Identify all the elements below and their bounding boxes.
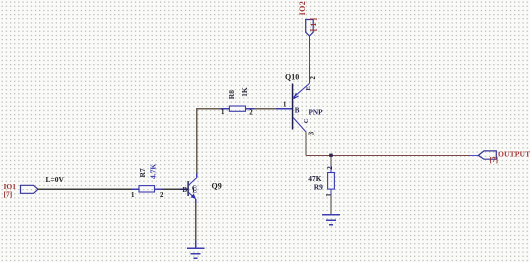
wire horizontal net corner to R8	[196, 108, 220, 110]
svg-text:R8: R8	[227, 90, 236, 99]
transistor Q10 emitter lead	[293, 84, 309, 98]
port IO1	[21, 185, 39, 193]
wire OUTPUT port stub	[470, 154, 478, 156]
wire ground pin stub	[195, 241, 197, 248]
resistor R9	[328, 173, 335, 190]
wire R8 pin2 stub	[246, 108, 255, 110]
svg-text:Q9: Q9	[212, 181, 222, 190]
transistor Q10 base bar	[292, 84, 294, 130]
svg-text:[1]: [1]	[309, 16, 318, 31]
wire IO1 to R7	[38, 188, 132, 190]
wire R8 pin1 stub	[220, 108, 229, 110]
wire output net horizontal	[306, 154, 470, 156]
port IO2	[306, 20, 314, 36]
transistor Q10 emitter arrow	[294, 93, 299, 98]
svg-text:1: 1	[131, 192, 135, 199]
transistor Q9 emitter lead	[188, 192, 195, 199]
transistor Q10 collector lead	[293, 118, 306, 132]
wire Q9 base pin	[180, 188, 187, 190]
svg-text:[7]: [7]	[4, 190, 13, 199]
svg-text:E: E	[192, 187, 197, 195]
wire R7 pin1 stub	[132, 188, 139, 190]
svg-text:1: 1	[325, 193, 333, 197]
wire Q9 emitter down	[195, 199, 197, 203]
svg-text:1: 1	[283, 101, 287, 108]
svg-text:B: B	[182, 186, 187, 194]
svg-text:1: 1	[221, 109, 225, 116]
wire Q10 emitter pin up	[308, 66, 310, 84]
junction output net / R9	[329, 154, 332, 157]
svg-text:L=0V: L=0V	[46, 175, 65, 184]
transistor Q9 collector lead	[188, 178, 196, 186]
svg-text:2: 2	[310, 76, 317, 80]
resistor R8	[229, 106, 245, 111]
svg-text:[7]: [7]	[490, 156, 498, 164]
transistor Q9 base bar	[187, 181, 188, 196]
svg-text:R7: R7	[138, 168, 147, 177]
svg-text:B: B	[295, 106, 300, 114]
wire R9 pin1 stub	[330, 189, 332, 195]
wire junction to R9	[330, 155, 332, 165]
svg-text:PNP: PNP	[309, 108, 324, 116]
wire R7 to Q9 base	[163, 188, 181, 190]
svg-text:2: 2	[326, 166, 334, 170]
svg-text:C: C	[303, 118, 310, 123]
port OUTPUT	[478, 151, 496, 159]
resistor R7	[139, 186, 155, 192]
svg-text:OUTPUT: OUTPUT	[498, 150, 530, 159]
svg-text:Q10: Q10	[285, 72, 299, 81]
wire Q9 emitter net to ground	[195, 203, 197, 241]
wire net IO2 to Q10 emitter	[308, 48, 310, 67]
svg-text:4.7K: 4.7K	[149, 164, 158, 179]
wire R9 pin2 stub	[330, 166, 332, 173]
wire Q9 collector up	[196, 174, 198, 178]
svg-text:2: 2	[160, 192, 164, 199]
transistor Q9 emitter arrow	[191, 194, 196, 199]
svg-text:E: E	[305, 86, 312, 90]
wire Q10 collector down	[305, 132, 307, 156]
wire R8 to Q10 base	[255, 108, 277, 110]
svg-text:3: 3	[308, 131, 315, 135]
svg-text:R9: R9	[314, 182, 323, 191]
wire Q10 base pin	[276, 108, 292, 110]
svg-text:1K: 1K	[240, 87, 249, 97]
ground symbol under Q9	[187, 248, 205, 258]
wire R7 pin2 stub	[155, 188, 163, 190]
wire IO2 port stub	[308, 36, 310, 48]
wire vertical net Q9 collector to R8	[196, 108, 198, 173]
svg-text:2: 2	[249, 110, 253, 117]
wire R9 to ground	[330, 196, 332, 214]
ground symbol under R9	[322, 215, 340, 225]
svg-text:IO2: IO2	[298, 1, 307, 16]
